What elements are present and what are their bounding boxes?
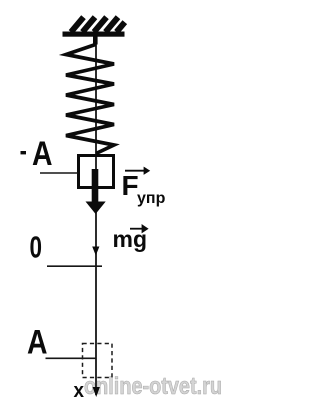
ceiling bar [63, 32, 125, 37]
mass box [79, 156, 114, 188]
spring [66, 45, 114, 154]
svg-text:упр: упр [137, 190, 166, 207]
vector arrow over F [125, 168, 149, 173]
dashed box at position A [83, 344, 113, 378]
axis line (x axis, vertical wire through figure) [95, 36, 97, 395]
force arrow Fupr (thick) [86, 169, 106, 214]
ceiling hatch [71, 17, 125, 32]
level line 0 [47, 265, 102, 267]
svg-text:A: A [27, 324, 48, 362]
level line A [46, 357, 97, 359]
svg-text:online-otvet.ru: online-otvet.ru [84, 373, 222, 400]
svg-text:x: x [74, 380, 85, 400]
svg-text:A: A [32, 135, 53, 173]
label -A [21, 135, 53, 173]
svg-text:0: 0 [30, 230, 43, 265]
svg-text:mg: mg [113, 226, 148, 252]
spring hook stub [93, 36, 98, 45]
x axis arrowhead [93, 387, 100, 397]
vector arrow over g [130, 226, 147, 232]
level line -A [40, 172, 78, 174]
mg arrowhead [92, 247, 99, 256]
